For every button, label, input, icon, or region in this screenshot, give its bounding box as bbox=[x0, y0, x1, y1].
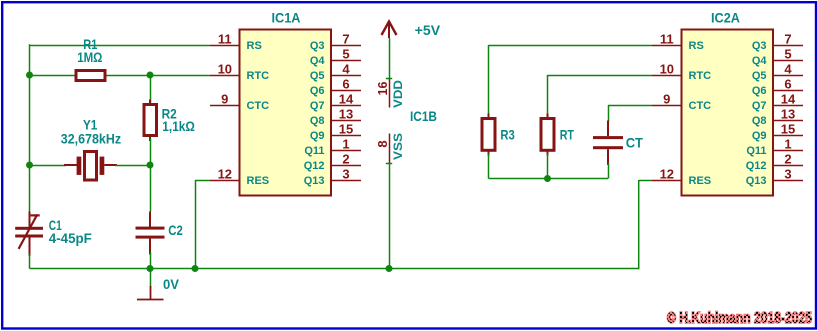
svg-text:Q13: Q13 bbox=[304, 175, 325, 187]
svg-text:VSS: VSS bbox=[391, 133, 405, 160]
svg-text:6: 6 bbox=[342, 77, 349, 92]
svg-text:IC1B: IC1B bbox=[410, 108, 437, 124]
svg-text:Q9: Q9 bbox=[310, 130, 325, 142]
svg-text:1,1kΩ: 1,1kΩ bbox=[162, 118, 195, 134]
svg-text:C2: C2 bbox=[168, 222, 183, 238]
svg-text:2: 2 bbox=[784, 152, 791, 167]
svg-text:6: 6 bbox=[784, 77, 791, 92]
svg-text:VDD: VDD bbox=[391, 80, 405, 108]
svg-text:IC2A: IC2A bbox=[711, 11, 740, 26]
svg-text:CTC: CTC bbox=[247, 100, 270, 112]
svg-text:RS: RS bbox=[247, 40, 262, 52]
svg-text:RTC: RTC bbox=[247, 70, 270, 82]
svg-text:Q5: Q5 bbox=[752, 70, 767, 82]
svg-text:Q8: Q8 bbox=[752, 115, 767, 127]
svg-text:Q6: Q6 bbox=[310, 85, 325, 97]
svg-text:Q11: Q11 bbox=[746, 145, 766, 157]
svg-text:4: 4 bbox=[342, 62, 350, 77]
svg-text:1: 1 bbox=[784, 137, 791, 152]
svg-text:Q12: Q12 bbox=[746, 160, 767, 172]
svg-text:11: 11 bbox=[660, 32, 674, 47]
svg-text:Q12: Q12 bbox=[304, 160, 325, 172]
svg-text:RES: RES bbox=[247, 175, 270, 187]
svg-text:Q7: Q7 bbox=[310, 100, 325, 112]
svg-text:4-45pF: 4-45pF bbox=[49, 230, 92, 246]
svg-text:3: 3 bbox=[784, 167, 791, 182]
svg-text:10: 10 bbox=[218, 62, 232, 77]
svg-text:© H.Kuhlmann 2018-2025: © H.Kuhlmann 2018-2025 bbox=[667, 310, 812, 327]
svg-text:RT: RT bbox=[560, 126, 575, 142]
svg-text:Q5: Q5 bbox=[310, 70, 325, 82]
svg-text:RES: RES bbox=[689, 175, 712, 187]
svg-text:7: 7 bbox=[784, 32, 791, 47]
svg-text:Q3: Q3 bbox=[752, 40, 767, 52]
svg-text:32,678kHz: 32,678kHz bbox=[61, 131, 121, 147]
svg-text:0V: 0V bbox=[163, 276, 180, 292]
svg-text:Q9: Q9 bbox=[752, 130, 767, 142]
svg-text:Q4: Q4 bbox=[310, 55, 326, 67]
svg-text:Q13: Q13 bbox=[746, 175, 767, 187]
svg-text:8: 8 bbox=[375, 140, 390, 147]
svg-text:10: 10 bbox=[660, 62, 674, 77]
svg-text:Q4: Q4 bbox=[752, 55, 768, 67]
svg-text:1MΩ: 1MΩ bbox=[77, 49, 102, 65]
svg-text:15: 15 bbox=[339, 122, 353, 137]
svg-text:2: 2 bbox=[342, 152, 349, 167]
svg-text:13: 13 bbox=[781, 107, 795, 122]
svg-text:IC1A: IC1A bbox=[272, 11, 301, 26]
svg-text:5: 5 bbox=[784, 47, 791, 62]
svg-text:15: 15 bbox=[781, 122, 795, 137]
svg-text:1: 1 bbox=[342, 137, 349, 152]
svg-text:CTC: CTC bbox=[689, 100, 712, 112]
svg-text:RS: RS bbox=[689, 40, 704, 52]
svg-text:4: 4 bbox=[784, 62, 792, 77]
svg-text:11: 11 bbox=[218, 32, 232, 47]
svg-text:14: 14 bbox=[339, 92, 354, 107]
svg-text:7: 7 bbox=[342, 32, 349, 47]
svg-text:R3: R3 bbox=[500, 126, 515, 142]
svg-text:12: 12 bbox=[218, 167, 232, 182]
svg-text:Q3: Q3 bbox=[310, 40, 325, 52]
svg-text:Q8: Q8 bbox=[310, 115, 325, 127]
svg-text:+5V: +5V bbox=[415, 22, 441, 38]
svg-text:16: 16 bbox=[375, 82, 390, 96]
svg-text:RTC: RTC bbox=[689, 70, 712, 82]
svg-text:9: 9 bbox=[221, 92, 228, 107]
svg-text:13: 13 bbox=[339, 107, 353, 122]
svg-text:14: 14 bbox=[781, 92, 796, 107]
svg-text:9: 9 bbox=[663, 92, 670, 107]
svg-text:5: 5 bbox=[342, 47, 349, 62]
svg-text:Q7: Q7 bbox=[752, 100, 767, 112]
svg-text:CT: CT bbox=[626, 135, 644, 151]
svg-text:12: 12 bbox=[660, 167, 674, 182]
svg-text:Q6: Q6 bbox=[752, 85, 767, 97]
svg-text:Q11: Q11 bbox=[304, 145, 324, 157]
svg-text:3: 3 bbox=[342, 167, 349, 182]
